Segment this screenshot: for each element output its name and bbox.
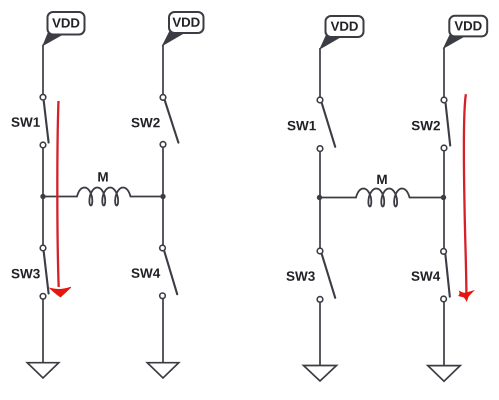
wire right SW2 bottom to node D [443, 151, 445, 198]
ground symbol 2 [147, 363, 178, 378]
wire VDD1 to SW1 top [42, 45, 44, 95]
switch SW3 (left closed low) [40, 245, 48, 299]
ground symbol 4 [428, 366, 460, 382]
wire node A to motor M1 [43, 196, 78, 198]
wire SW2 bottom to node B [162, 147, 164, 196]
switch SW1 (left closed) [40, 94, 48, 147]
wire node B to SW4 top [162, 197, 164, 246]
power flag VDD1 [43, 12, 84, 45]
junction node D [441, 195, 446, 200]
svg-text:SW1: SW1 [11, 115, 41, 130]
svg-text:SW4: SW4 [411, 269, 441, 284]
svg-text:SW3: SW3 [286, 269, 316, 284]
wire node C to motor M2 [320, 197, 357, 199]
ground symbol 1 [27, 363, 58, 378]
wire VDD2 to SW2 top [162, 45, 164, 95]
motor inductor M (right) [356, 189, 410, 207]
wire right SW3 bottom to ground 3 [319, 303, 321, 366]
svg-text:M: M [97, 169, 108, 184]
svg-text:SW2: SW2 [131, 115, 160, 130]
motor inductor M (left) [77, 188, 131, 206]
svg-text:SW2: SW2 [411, 118, 440, 133]
switch SW1 (right open) [317, 97, 335, 151]
wire SW1 bottom to node A [42, 148, 44, 197]
svg-text:M: M [376, 172, 387, 187]
switch SW4 (right closed low) [441, 249, 450, 302]
power flag VDD3 [320, 16, 363, 49]
wire motor M1 to node B [130, 196, 163, 198]
svg-text:VDD: VDD [172, 15, 200, 30]
wire node D to right SW4 top [443, 198, 445, 249]
switch SW2 (left open) [160, 95, 178, 148]
wire SW3 bottom to ground 1 [42, 299, 44, 362]
red current-flow arrow (right circuit) [459, 94, 474, 301]
svg-text:VDD: VDD [52, 16, 80, 31]
switch SW4 (left open low) [160, 245, 178, 298]
wire right SW1 bottom to node C [319, 152, 321, 198]
wire SW4 bottom to ground 2 [162, 299, 164, 363]
svg-text:VDD: VDD [331, 19, 359, 34]
wire right SW4 bottom to ground 4 [443, 302, 445, 365]
ground symbol 3 [304, 366, 337, 382]
wire node C to right SW3 top [319, 198, 321, 249]
junction node B [160, 194, 165, 199]
wire VDD4 to right SW2 top [443, 48, 445, 98]
power flag VDD2 [163, 12, 204, 45]
svg-text:SW4: SW4 [131, 266, 161, 281]
svg-text:SW1: SW1 [287, 118, 317, 133]
junction node C [317, 195, 322, 200]
svg-text:VDD: VDD [454, 18, 482, 33]
wire node A to SW3 top [42, 197, 44, 246]
switch SW3 (right open low) [317, 248, 335, 302]
wire VDD3 to right SW1 top [319, 48, 321, 97]
power flag VDD4 [444, 16, 487, 48]
junction node A [40, 194, 45, 199]
red current-flow arrow (left circuit) [50, 101, 71, 297]
svg-text:SW3: SW3 [11, 266, 41, 281]
switch SW2 (right closed) [441, 97, 450, 151]
wire motor M2 to node D [409, 197, 444, 199]
